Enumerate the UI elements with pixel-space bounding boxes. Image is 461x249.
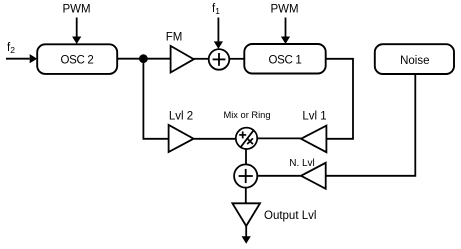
svg-text:Mix or Ring: Mix or Ring: [223, 110, 270, 120]
output arrow: [242, 226, 251, 244]
wire summer2 down to output amp: [245, 187, 247, 203]
svg-text:FM: FM: [166, 32, 183, 44]
svg-text:f1: f1: [212, 3, 220, 16]
wire f2 input arrow: [6, 54, 37, 63]
svg-text:Output Lvl: Output Lvl: [264, 210, 316, 222]
wire mixer down to summer2: [245, 149, 247, 165]
noise source Noise: [375, 44, 454, 74]
mixer (sum/ring selector): [236, 128, 257, 149]
wire summer to OSC1: [229, 58, 244, 60]
oscillator OSC2: [37, 44, 117, 74]
wire junction down to Lvl2 amp: [143, 59, 168, 139]
svg-text:Lvl 1: Lvl 1: [302, 110, 326, 122]
svg-text:OSC 2: OSC 2: [60, 55, 93, 67]
wire PWM arrow into OSC1: [281, 18, 290, 45]
amplifier N.Lvl: [301, 163, 326, 189]
node junction: [139, 54, 148, 63]
wire PWM arrow into OSC2: [72, 18, 81, 45]
svg-text:Lvl 2: Lvl 2: [169, 110, 193, 122]
wire FM amp to summer: [194, 58, 209, 60]
amplifier Lvl1: [301, 126, 326, 153]
svg-text:f2: f2: [7, 42, 15, 55]
amplifier FM: [171, 46, 194, 73]
svg-text:Noise: Noise: [400, 55, 429, 67]
wire Lvl2 amp to mixer: [194, 138, 236, 140]
wire summer2 to N.Lvl apex: [257, 175, 301, 177]
amplifier Output Lvl: [232, 203, 260, 226]
summer U1 (f1 + FM): [209, 49, 230, 70]
oscillator OSC1: [244, 44, 325, 74]
summer2 (mix + noise): [234, 164, 257, 187]
wire OSC2 output to FM amp: [117, 58, 170, 60]
wire Noise down-left to N.Lvl amp: [326, 74, 416, 176]
amplifier Lvl2: [169, 125, 194, 152]
wire f1 arrow into summer: [214, 18, 223, 49]
wire mixer to Lvl1 apex: [257, 137, 301, 139]
svg-text:PWM: PWM: [62, 4, 90, 16]
svg-text:N. Lvl: N. Lvl: [289, 158, 315, 169]
wire OSC1 output right-down to Lvl1 amp: [326, 59, 353, 139]
svg-text:OSC 1: OSC 1: [268, 55, 301, 67]
svg-text:PWM: PWM: [270, 4, 298, 16]
